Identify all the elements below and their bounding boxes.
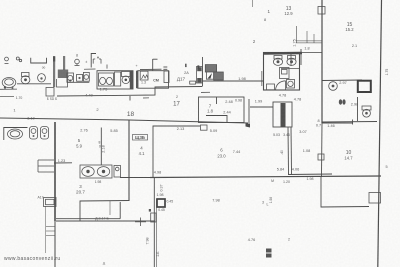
wire shelf under fixtures (17, 83, 51, 85)
wire line y92.5 (201, 91, 210, 93)
toilet room tank 2 (288, 56, 296, 60)
lower washroom oval sink (8, 129, 23, 139)
shaft wall dark bar 1 (53, 56, 55, 87)
wire small shelf y69 (84, 68, 96, 70)
wire shower room wall y80 (322, 79, 362, 82)
column dark mark left (149, 209, 151, 212)
wire shower room wall y121 (322, 121, 377, 124)
box on corridor line y96 (46, 88, 54, 97)
mid sink oval 1 (82, 167, 94, 177)
bidet blobs (339, 99, 346, 104)
wire shaft dark bar (281, 103, 286, 127)
wire top tick x252 (252, 0, 254, 7)
shaft wall dark bar 2 (63, 56, 65, 70)
wire wall y207 lower right (321, 177, 369, 207)
toilet room box (264, 53, 300, 91)
lower urinal 2 (41, 127, 49, 140)
wire room5 right wall (100, 128, 102, 166)
small box fixture (77, 74, 83, 81)
wire room10 left wall (321, 123, 324, 177)
toilet G1 (67, 73, 74, 82)
niche bracket top left (31, 58, 47, 63)
shower dark box (358, 81, 371, 92)
wire wall x249 (248, 99, 250, 123)
column square (157, 199, 165, 207)
wire wall y123 right (322, 122, 353, 124)
box on wall x376 (369, 193, 381, 204)
tiny icon A top-left (5, 57, 9, 63)
small s box (190, 81, 196, 84)
wire wall x152.7 (152, 59, 154, 70)
wire wall x301 (300, 49, 302, 65)
washroom box (97, 71, 133, 89)
wire room3 inner line (109, 201, 111, 215)
shaft dark block (58, 70, 68, 79)
door frame marks x93-101 (93, 56, 101, 64)
toilet room tank 1 (274, 56, 282, 60)
washroom center box (115, 72, 121, 86)
blobs 85 lower right (266, 249, 272, 258)
box on wall x322 mid (318, 154, 324, 160)
shaft hatched block B (214, 72, 224, 80)
small box wall x155 lower (151, 213, 156, 222)
wire ticks between x45 and x56 (46, 226, 55, 228)
wire vertical wall x129 (128, 120, 130, 201)
mid sink counter (80, 165, 112, 178)
shaft x-box (206, 72, 213, 79)
wire room4 walls (120, 126, 200, 178)
box on wall x55 (44, 198, 57, 207)
wire toilet room shelf (281, 68, 299, 70)
tiny icon B top-left (16, 57, 21, 62)
wire washroom2 counter (4, 128, 28, 141)
wire long wall y177 (150, 176, 381, 178)
shower room circle fixture (329, 82, 338, 91)
shaft hatched block A (205, 65, 216, 72)
toilet room door arc (276, 81, 286, 90)
toilet T1 top-left (21, 73, 30, 84)
wire dim vertical x296 (296, 26, 298, 43)
wire room7 inner shelf (206, 116, 227, 123)
mid small fixture box (114, 166, 121, 178)
wire dim tick x307 (306, 31, 308, 43)
small box x200 y125 (201, 125, 208, 130)
wire wall x91 (91, 54, 96, 68)
wire wall x155 (153, 177, 155, 267)
sink oval 1 (100, 77, 106, 84)
wire room7 inner tick (216, 97, 218, 104)
shaft mid box (273, 102, 292, 127)
toilet room sink box (280, 68, 290, 79)
wire shelf under oval (0, 88, 17, 90)
wire wall pair x288 (287, 127, 290, 174)
wire door tick x130 (129, 96, 131, 101)
wire dim cross tick (140, 218, 142, 227)
wire corridor top wall left (0, 95, 14, 97)
tripod icon (75, 59, 80, 65)
wire tick top x152.7 (153, 58, 158, 60)
small rect fixture (164, 71, 169, 83)
wire corridor y107 (250, 106, 273, 108)
radiator box (197, 67, 203, 84)
wire dim lines y41 (296, 40, 322, 42)
room 7 box (199, 97, 245, 123)
shower room toilet (362, 106, 371, 117)
wire wall y174 upper (288, 173, 332, 176)
tick x107 (106, 65, 108, 69)
tick dark near shaft (197, 65, 199, 68)
wire wall x322 (321, 0, 323, 123)
wire wall y163 (54, 162, 72, 164)
wire closet wall x120 (119, 202, 121, 219)
shield box outline (133, 135, 148, 141)
wire shower partition x357 (357, 97, 359, 121)
wire room3 jog walls (56, 201, 129, 222)
washroom toilet (122, 72, 131, 84)
wire dash left of 17 (143, 97, 149, 99)
lower urinal 1 (30, 127, 38, 140)
toilet room fixture lower (287, 80, 295, 89)
wire wall right outer (378, 0, 382, 267)
wire wall y221 (56, 220, 155, 222)
shaft bracket (57, 79, 68, 87)
fixture M box (140, 71, 148, 80)
wire shaft left wall (202, 57, 204, 87)
toilet room bowl 1 (273, 58, 282, 65)
wire vertical wall x55 (54, 122, 56, 221)
small mark x185 (185, 64, 187, 67)
bath oval fixture top-left (2, 78, 16, 90)
wire line y69.4 (140, 68, 162, 70)
wire toilet divider (290, 52, 292, 66)
toilet room corner box (267, 84, 275, 90)
urinal top-left (38, 74, 46, 82)
shelf lines closet (38, 160, 54, 172)
wire line y52 right (302, 52, 322, 54)
room right of washroom (138, 71, 169, 89)
wire corridor bottom wall long (0, 118, 248, 123)
washroom counter (99, 73, 114, 86)
wire equal marks (163, 66, 167, 68)
wire double wall y218.7 (56, 218, 120, 220)
wire end tick x353 (352, 120, 354, 125)
box on wall x322 top (318, 7, 325, 15)
wire shelf y82 (67, 81, 89, 83)
wire toilet room left wall double (261, 71, 263, 86)
room13 dark left wall (136, 71, 138, 89)
toilet G2 (83, 72, 89, 81)
wire toilet room top hatch (264, 52, 302, 55)
wire vertical wall x45 light (45, 206, 47, 253)
wire wall y81 (203, 80, 264, 82)
sink oval 2 (106, 77, 112, 84)
toilet room bowl 2 (287, 58, 296, 65)
washroom dark right wall (130, 71, 133, 89)
mid sink oval 2 (97, 167, 109, 177)
dark corner blob x246 (246, 124, 251, 128)
